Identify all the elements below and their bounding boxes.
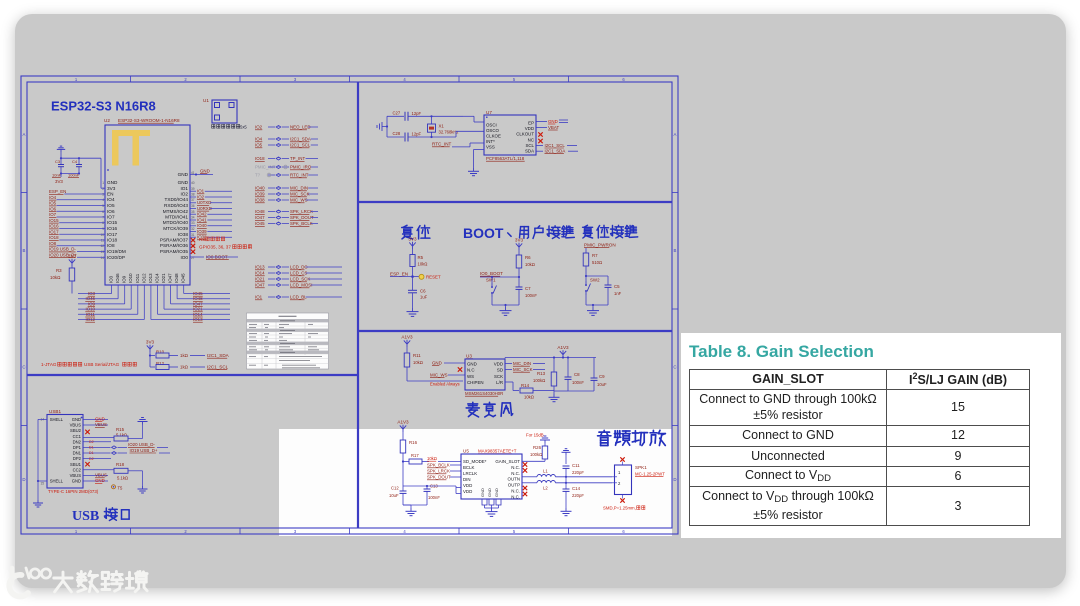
- svg-text:MTMS/IO42: MTMS/IO42: [163, 209, 189, 214]
- svg-text:C6: C6: [420, 289, 426, 294]
- svg-text:SCL: SCL: [525, 143, 534, 148]
- svg-text:MIC_WS: MIC_WS: [430, 373, 448, 378]
- svg-text:N.C.: N.C.: [511, 471, 520, 476]
- svg-text:12pF: 12pF: [412, 132, 422, 137]
- svg-text:DIN: DIN: [463, 477, 471, 482]
- resistor R26 gain set: [522, 443, 548, 461]
- svg-text:DP1: DP1: [73, 445, 82, 450]
- wire OSCI OSCO: [456, 116, 484, 137]
- push button SW1: [486, 277, 519, 305]
- svg-text:GND: GND: [487, 488, 492, 497]
- svg-text:IO11: IO11: [135, 273, 140, 283]
- svg-text:SPK_BCLK: SPK_BCLK: [427, 463, 450, 468]
- svg-text:C4: C4: [72, 159, 78, 164]
- svg-text:VBUS: VBUS: [95, 422, 107, 427]
- svg-text:10kΩ: 10kΩ: [50, 275, 61, 280]
- wire VDD audio: [427, 486, 461, 494]
- svg-text:14: 14: [100, 256, 104, 260]
- mic L/R select R14: [505, 382, 541, 400]
- svg-text:IO2: IO2: [180, 192, 188, 197]
- svg-text:I2C1_SCL: I2C1_SCL: [290, 143, 311, 148]
- USB VBUS GND wires bottom: [83, 473, 108, 484]
- note SMD pitch: [603, 506, 645, 511]
- heading reset button: [583, 225, 638, 238]
- X mark SBU1: [85, 462, 89, 466]
- svg-text:B: B: [23, 248, 26, 253]
- svg-text:GAIN_SLOT: GAIN_SLOT: [495, 459, 520, 464]
- power flag audio filter: [562, 449, 571, 478]
- push button SW2: [585, 276, 600, 305]
- svg-text:CC2: CC2: [73, 467, 82, 472]
- svg-text:R13: R13: [537, 371, 546, 376]
- svg-text:I2C1_SDA: I2C1_SDA: [290, 137, 311, 142]
- svg-text:IO1: IO1: [180, 186, 188, 191]
- net label PMIC PWRON: [584, 243, 616, 254]
- svg-text:IO20 USB_D-: IO20 USB_D-: [128, 442, 155, 447]
- svg-text:IO14: IO14: [255, 271, 265, 276]
- svg-text:INT*: INT*: [486, 139, 495, 144]
- resistor R17 SD_MODE: [403, 453, 461, 464]
- svg-text:31: 31: [191, 233, 195, 237]
- svg-text:SCK: SCK: [494, 374, 503, 379]
- svg-text:SW2: SW2: [590, 278, 600, 283]
- resistor R13: [533, 356, 557, 394]
- svg-text:3V3: 3V3: [146, 339, 155, 344]
- svg-text:CLKOE: CLKOE: [486, 134, 501, 139]
- svg-text:SPK_BCLK: SPK_BCLK: [290, 221, 313, 226]
- svg-text:10kΩ: 10kΩ: [427, 456, 437, 461]
- svg-text:1: 1: [618, 470, 621, 475]
- svg-text:I2C1_SCL: I2C1_SCL: [545, 143, 566, 148]
- svg-text:IO0_BOOT: IO0_BOOT: [480, 271, 503, 276]
- svg-text:IO7: IO7: [107, 215, 115, 220]
- svg-text:IO42: IO42: [197, 212, 207, 217]
- svg-text:510Ω: 510Ω: [592, 260, 602, 265]
- svg-text:IO39: IO39: [255, 192, 265, 197]
- svg-text:IO12: IO12: [85, 317, 95, 322]
- resistor R16: [400, 432, 417, 486]
- ground boot: [500, 304, 512, 316]
- svg-text:D1: D1: [89, 446, 94, 450]
- svg-text:IO19 USB_D-: IO19 USB_D-: [49, 247, 76, 252]
- capacitor C7: [516, 277, 538, 305]
- svg-text:R6: R6: [525, 255, 531, 260]
- svg-text:GND: GND: [178, 172, 189, 177]
- svg-text:GND: GND: [480, 488, 485, 497]
- svg-text:GND: GND: [432, 361, 442, 366]
- svg-text:IO5: IO5: [49, 201, 57, 206]
- capacitor C11: [563, 463, 585, 477]
- ground audio left: [403, 505, 417, 516]
- left horizontal divider between MCU and USB: [27, 374, 358, 376]
- svg-text:C28: C28: [393, 131, 401, 136]
- right horizontal divider between buttons and mic: [358, 330, 672, 332]
- svg-text:GND: GND: [178, 180, 189, 185]
- svg-text:A: A: [674, 132, 677, 137]
- net labels SPK BCLK LRCK DOUT: [427, 463, 461, 480]
- svg-text:12pF: 12pF: [412, 111, 422, 116]
- svg-text:CC1: CC1: [73, 434, 82, 439]
- svg-text:C7: C7: [525, 286, 531, 291]
- svg-text:6: 6: [102, 210, 104, 214]
- svg-text:GND: GND: [72, 417, 81, 422]
- svg-text:32: 32: [191, 227, 195, 231]
- svg-text:7: 7: [102, 216, 104, 220]
- svg-text:8: 8: [102, 221, 104, 225]
- svg-text:L2: L2: [543, 486, 548, 491]
- RTC left ground symbol: [377, 116, 388, 137]
- svg-text:IO21: IO21: [255, 277, 265, 282]
- svg-text:MTCK/IO39: MTCK/IO39: [163, 226, 188, 231]
- crystal X1 32.768kHz: [428, 115, 459, 138]
- svg-text:C8: C8: [574, 372, 580, 377]
- svg-text:12: 12: [100, 244, 104, 248]
- svg-text:R7: R7: [592, 253, 598, 258]
- svg-text:U0TXD: U0TXD: [197, 200, 211, 205]
- U7 VSS ground: [468, 150, 484, 176]
- resistor R15 CC1 pulldown: [83, 418, 148, 442]
- svg-text:PSRAM/IO37: PSRAM/IO37: [160, 238, 189, 243]
- svg-text:C3: C3: [55, 159, 61, 164]
- capacitor C28: [387, 131, 456, 141]
- svg-text:U7: U7: [486, 110, 492, 115]
- ground audio filter: [561, 508, 572, 516]
- svg-text:32.768kHz: 32.768kHz: [439, 130, 459, 135]
- svg-text:VDD: VDD: [463, 483, 472, 488]
- svg-text:IO2: IO2: [255, 125, 263, 130]
- svg-text:BOOT: BOOT: [463, 225, 504, 241]
- svg-text:IO47: IO47: [255, 283, 265, 288]
- svg-text:IO12: IO12: [141, 273, 146, 283]
- svg-text:IO5: IO5: [107, 203, 115, 208]
- svg-text:IO0: IO0: [180, 255, 188, 260]
- svg-text:MIC_WS: MIC_WS: [290, 198, 308, 203]
- svg-text:IO7: IO7: [49, 212, 57, 217]
- svg-text:DP2: DP2: [73, 456, 82, 461]
- U7 right side wires and labels: [536, 119, 578, 154]
- svg-text:GND: GND: [95, 478, 105, 483]
- U2 bottom pin names: [109, 273, 186, 283]
- svg-text:TXD0/IO44: TXD0/IO44: [165, 197, 189, 202]
- svg-text:IO48: IO48: [255, 209, 265, 214]
- svg-text:BCLK: BCLK: [463, 465, 475, 470]
- USB data pair wires: [83, 440, 170, 461]
- svg-text:SPK_DOUT: SPK_DOUT: [290, 215, 314, 220]
- svg-text:R16: R16: [409, 440, 418, 445]
- power A1V3 audio: [397, 419, 409, 432]
- svg-text:IO10: IO10: [128, 273, 133, 283]
- svg-text:MC-1.25-2PWT: MC-1.25-2PWT: [635, 472, 665, 477]
- svg-text:U5: U5: [463, 449, 469, 454]
- svg-text:1nF: 1nF: [614, 291, 622, 296]
- amp GND pads and ground: [482, 499, 501, 516]
- mic chip U3: [465, 354, 505, 397]
- svg-text:USB Serial/JTAG: USB Serial/JTAG: [84, 362, 120, 367]
- svg-text:RESET: RESET: [426, 275, 441, 280]
- svg-text:U3: U3: [466, 354, 472, 359]
- heading USB interface: [72, 508, 129, 524]
- svg-text:X1: X1: [439, 124, 445, 129]
- svg-text:L1: L1: [543, 469, 548, 474]
- svg-text:IO18: IO18: [49, 235, 59, 240]
- svg-text:1kΩ: 1kΩ: [180, 365, 189, 370]
- svg-text:IO6: IO6: [107, 209, 115, 214]
- svg-text:3: 3: [294, 529, 297, 534]
- svg-text:D1: D1: [89, 451, 94, 455]
- svg-text:IO15: IO15: [107, 220, 118, 225]
- capacitor C5: [586, 276, 622, 305]
- svg-text:N.C.: N.C.: [511, 489, 520, 494]
- resistor R3 pull-up: [50, 253, 77, 293]
- svg-text:RTC_INT: RTC_INT: [432, 142, 452, 147]
- svg-text:B: B: [674, 248, 677, 253]
- right fan-out net labels: [193, 291, 203, 322]
- capacitor C9 mic: [568, 358, 607, 392]
- svg-text:27: 27: [191, 256, 195, 260]
- svg-text:C11: C11: [572, 463, 580, 468]
- RTC chip U7 PCF8563: [484, 110, 536, 161]
- svg-text:NEO_LED: NEO_LED: [290, 125, 311, 130]
- svg-text:IO46: IO46: [115, 273, 120, 283]
- reset button R7: [583, 253, 602, 277]
- svg-text:3V3: 3V3: [515, 237, 524, 242]
- right port labels TP INT PMIC RTC: [255, 156, 318, 178]
- module U2 ESP32-S3-WROOM-1 outline: [104, 118, 190, 285]
- svg-text:5.1kΩ: 5.1kΩ: [117, 476, 128, 481]
- svg-text:L/R: L/R: [496, 380, 503, 385]
- border zone ticks and numbers: [21, 76, 678, 534]
- Table 8 gain selection panel: [681, 333, 1061, 538]
- svg-text:I2C1_SDA: I2C1_SDA: [207, 353, 230, 358]
- svg-text:PMIC_PWRON: PMIC_PWRON: [584, 243, 616, 248]
- svg-text:IO48: IO48: [174, 273, 179, 283]
- svg-text:DN2: DN2: [73, 439, 82, 444]
- test point RESET: [413, 274, 441, 279]
- svg-text:1: 1: [102, 181, 104, 185]
- svg-text:D: D: [673, 477, 676, 482]
- ground flag above R26: [540, 436, 550, 443]
- svg-text:OUTP: OUTP: [508, 483, 520, 488]
- svg-text:2: 2: [102, 187, 104, 191]
- title ESP32-S3 N16R8: [51, 99, 156, 114]
- svg-text:IO18: IO18: [255, 156, 265, 161]
- svg-text:GND: GND: [494, 488, 499, 497]
- svg-text:R12: R12: [156, 361, 165, 366]
- svg-text:PCF8563ATL/1,118: PCF8563ATL/1,118: [486, 156, 525, 161]
- net label IO0 BOOT: [190, 255, 238, 260]
- svg-text:EN: EN: [107, 192, 114, 197]
- schematic sheet outer border: [21, 76, 678, 534]
- svg-text:GND: GND: [107, 180, 118, 185]
- svg-text:IO4: IO4: [255, 137, 263, 142]
- svg-text:N.C.: N.C.: [511, 465, 520, 470]
- svg-text:C12: C12: [391, 486, 399, 491]
- svg-text:5.1kΩ: 5.1kΩ: [116, 432, 127, 437]
- svg-text:N.C: N.C: [467, 368, 475, 373]
- svg-text:N.C.: N.C.: [511, 494, 520, 499]
- capacitor C27: [387, 111, 463, 121]
- svg-text:R14: R14: [521, 383, 530, 388]
- resistor R11: [404, 347, 463, 381]
- svg-text:10uF: 10uF: [597, 382, 607, 387]
- svg-text:C27: C27: [393, 111, 401, 116]
- svg-text:3: 3: [102, 193, 104, 197]
- svg-text:OSCI: OSCI: [486, 123, 497, 128]
- svg-text:SPK_DOUT: SPK_DOUT: [427, 475, 451, 480]
- svg-text:R11: R11: [413, 353, 421, 358]
- svg-text:SW1: SW1: [486, 278, 496, 283]
- svg-text:MAX98357AETE+T: MAX98357AETE+T: [478, 449, 517, 454]
- svg-text:USB1: USB1: [49, 409, 61, 414]
- svg-text:IO1: IO1: [255, 295, 263, 300]
- X marks unused amp pins: [523, 462, 527, 496]
- svg-text:VDD: VDD: [525, 126, 534, 131]
- svg-text:3V3: 3V3: [68, 253, 77, 258]
- svg-text:VBUS: VBUS: [95, 473, 107, 478]
- boot circuit R6: [515, 237, 535, 278]
- svg-text:10: 10: [100, 233, 104, 237]
- note JTAG source: [41, 362, 136, 367]
- svg-text:4: 4: [403, 529, 406, 534]
- svg-text:10kΩ: 10kΩ: [524, 395, 534, 400]
- svg-text:VBUS: VBUS: [70, 423, 82, 428]
- svg-text:VSS: VSS: [486, 145, 495, 150]
- svg-text:5: 5: [513, 529, 516, 534]
- svg-text:2: 2: [184, 529, 187, 534]
- svg-text:TP_INT: TP_INT: [290, 156, 305, 161]
- left fan-out net labels: [85, 291, 95, 322]
- svg-text:LCD_MOSI: LCD_MOSI: [290, 283, 312, 288]
- svg-text:IO8: IO8: [107, 243, 115, 248]
- svg-text:IO16: IO16: [49, 224, 59, 229]
- svg-text:IO40: IO40: [197, 223, 207, 228]
- svg-text:ESP32-S3-WROOM-1-N16R8: ESP32-S3-WROOM-1-N16R8: [118, 118, 180, 123]
- svg-text:I2C1_SCL: I2C1_SCL: [207, 365, 229, 370]
- svg-text:MTDI/IO41: MTDI/IO41: [165, 215, 188, 220]
- svg-text:VBUS: VBUS: [70, 473, 82, 478]
- svg-text:IO3: IO3: [109, 275, 114, 283]
- svg-text:LRCLK: LRCLK: [463, 471, 477, 476]
- svg-text:SD_MODE*: SD_MODE*: [463, 459, 487, 464]
- svg-text:IO1: IO1: [197, 189, 205, 194]
- svg-text:I2C1_SDA: I2C1_SDA: [545, 148, 566, 153]
- svg-text:OSCO: OSCO: [486, 128, 500, 133]
- ground reset button: [587, 304, 599, 316]
- svg-text:2: 2: [618, 481, 621, 486]
- heading microphone: [466, 402, 513, 417]
- svg-text:6: 6: [622, 529, 625, 534]
- svg-text:IO41: IO41: [197, 217, 207, 222]
- svg-text:10nF: 10nF: [52, 173, 62, 178]
- svg-text:PSRAM/IO36: PSRAM/IO36: [160, 243, 189, 248]
- svg-text:IO4: IO4: [49, 195, 57, 200]
- svg-text:R3: R3: [56, 268, 62, 273]
- svg-text:100nF: 100nF: [572, 380, 584, 385]
- svg-text:IO13: IO13: [255, 265, 265, 270]
- svg-text:IO16: IO16: [107, 226, 118, 231]
- capacitor C8 mic: [554, 356, 584, 391]
- svg-text:IO19 USB_D+: IO19 USB_D+: [130, 448, 158, 453]
- svg-text:38: 38: [191, 193, 195, 197]
- svg-text:A1V3: A1V3: [397, 419, 409, 424]
- heading audio amplifier: [598, 430, 666, 445]
- svg-text:LCD_SCK: LCD_SCK: [290, 277, 310, 282]
- reset circuit R5: [408, 236, 427, 278]
- svg-text:RXD0/IO43: RXD0/IO43: [164, 203, 188, 208]
- watermark logo K100: [4, 556, 194, 606]
- USB GND VBUS wires top: [83, 417, 108, 428]
- U2 left pin names: [100, 180, 125, 260]
- svg-text:IO6: IO6: [49, 206, 57, 211]
- svg-text:10uF: 10uF: [389, 493, 399, 498]
- svg-text:SHELL: SHELL: [50, 417, 64, 422]
- right port labels MIC I2S: [255, 186, 318, 203]
- note For 15dB: [526, 433, 544, 438]
- svg-text:1-JTAG: 1-JTAG: [41, 362, 57, 367]
- svg-text:10kΩ: 10kΩ: [418, 262, 428, 267]
- svg-text:100nF: 100nF: [428, 495, 440, 500]
- svg-text:D2: D2: [89, 457, 94, 461]
- svg-text:EP: EP: [528, 120, 534, 125]
- svg-text:SBU2: SBU2: [70, 428, 82, 433]
- svg-text:4: 4: [102, 198, 104, 202]
- svg-text:TYPE-C 16PIN 2MD(073): TYPE-C 16PIN 2MD(073): [48, 489, 99, 494]
- svg-text:3V3: 3V3: [107, 186, 116, 191]
- I2C pull-up resistors R10 R12: [146, 339, 230, 369]
- ground mic: [549, 394, 560, 402]
- audio amplifier highlight background: [279, 429, 672, 536]
- svg-text:IO20/DP: IO20/DP: [107, 255, 125, 260]
- svg-text:1uF: 1uF: [420, 295, 428, 300]
- svg-text:ESP_EN: ESP_EN: [390, 272, 408, 277]
- svg-text:LCD_BL: LCD_BL: [290, 295, 307, 300]
- svg-text:ESP32-S3 N16R8: ESP32-S3 N16R8: [51, 99, 156, 114]
- svg-text:IO9: IO9: [122, 275, 127, 283]
- svg-text:C14: C14: [572, 486, 581, 491]
- svg-text:VBAT: VBAT: [548, 125, 559, 130]
- svg-text:GND: GND: [72, 479, 81, 484]
- capacitor C14: [563, 477, 585, 508]
- net label RTC_INT: [432, 142, 484, 147]
- svg-text:A1V3: A1V3: [401, 334, 413, 339]
- svg-text:IO45: IO45: [181, 273, 186, 283]
- svg-text:SHELL: SHELL: [50, 479, 64, 484]
- power A1V3 mic rail: [557, 345, 569, 358]
- svg-text:100nF: 100nF: [525, 293, 537, 298]
- U2 bottom fan-out wires left: [78, 285, 144, 320]
- svg-text:C: C: [673, 365, 676, 370]
- svg-text:U1: U1: [203, 98, 209, 103]
- X mark SBU2: [85, 430, 89, 434]
- svg-text:IO39: IO39: [197, 229, 207, 234]
- ground reset: [407, 308, 419, 316]
- svg-text:MIC_DIN: MIC_DIN: [513, 361, 531, 366]
- svg-text:IO8: IO8: [49, 241, 57, 246]
- svg-text:IO18: IO18: [107, 238, 118, 243]
- capacitor C12: [389, 486, 407, 506]
- net label IO0 BOOT node: [480, 271, 519, 278]
- mic VDD rail wire: [505, 356, 596, 361]
- svg-text:ESP_EN: ESP_EN: [49, 189, 66, 194]
- svg-text:SMD,P=1.25mm,: SMD,P=1.25mm,: [603, 506, 636, 511]
- svg-text:IO4: IO4: [107, 197, 115, 202]
- test point T5: [112, 485, 124, 491]
- unusable PSRAM pins X marks and note: [191, 237, 252, 254]
- svg-text:U0RXD: U0RXD: [197, 206, 212, 211]
- svg-text:MIC_SCK: MIC_SCK: [290, 192, 310, 197]
- svg-text:15: 15: [40, 482, 44, 486]
- svg-text:IO47: IO47: [168, 273, 173, 283]
